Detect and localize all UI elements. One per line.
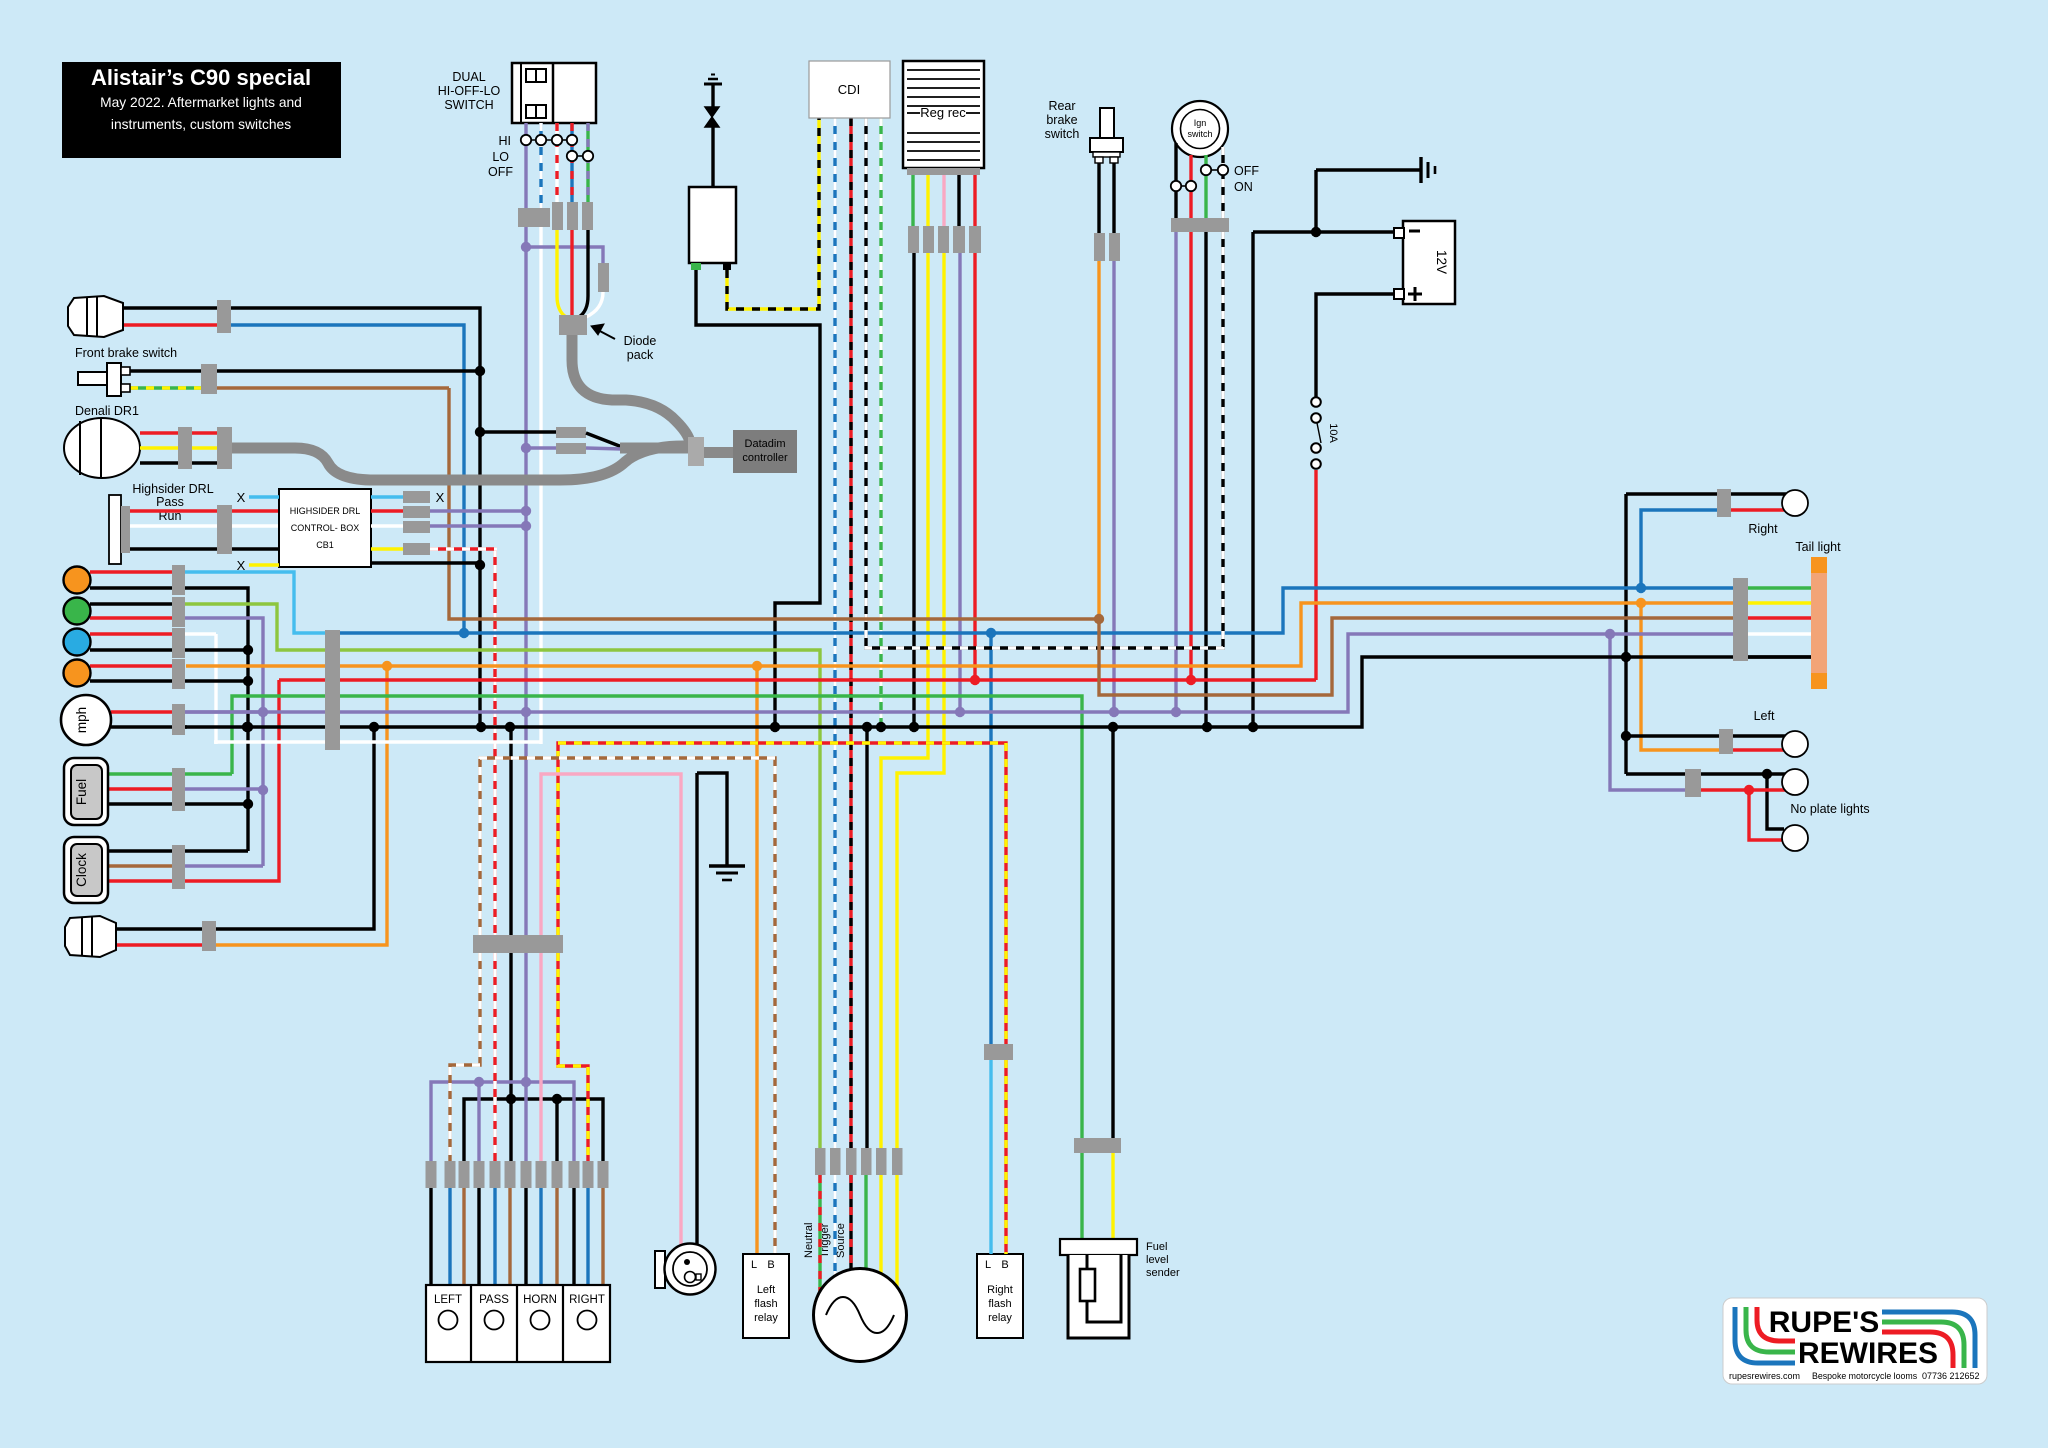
wire light-green rail xyxy=(185,604,820,1148)
connector ind1 xyxy=(172,565,185,595)
wire ind1 black branch xyxy=(90,588,248,851)
gauge mph xyxy=(61,695,111,745)
wire lamp orange xyxy=(216,666,387,945)
svg-text:rupesrewires.com: rupesrewires.com xyxy=(1729,1371,1800,1381)
connector regrec 2 xyxy=(923,226,934,253)
wire ign black xyxy=(1174,143,1177,218)
ground horn xyxy=(709,864,745,867)
connector fuel xyxy=(172,768,185,811)
box highsider control box CB1 xyxy=(279,489,371,567)
svg-text:HI: HI xyxy=(499,134,512,148)
wire CDI blue-white xyxy=(833,118,836,1148)
connector ind4 xyxy=(172,659,185,689)
wire highsider black xyxy=(130,547,279,550)
tail light bar xyxy=(1811,557,1827,573)
svg-text:RUPE'S: RUPE'S xyxy=(1769,1306,1880,1339)
wire no-plate black xyxy=(1626,772,1685,775)
rear brake switch body xyxy=(1100,108,1114,138)
wire fuel black xyxy=(108,802,248,805)
connector bundle wide xyxy=(473,935,563,953)
logo swoosh left green xyxy=(1746,1307,1795,1352)
wire dual blue-white top xyxy=(539,123,542,209)
wire highsider out red-purple xyxy=(371,509,403,512)
wire bundle black tee xyxy=(464,1099,603,1161)
wire bundle purple tee xyxy=(431,1082,574,1161)
wire battery negative xyxy=(1314,170,1317,232)
wire orange rail xyxy=(186,603,1733,666)
svg-text:CB1: CB1 xyxy=(316,540,334,550)
logo swoosh right blue xyxy=(1882,1312,1975,1368)
svg-text:HIGHSIDER DRL: HIGHSIDER DRL xyxy=(290,506,361,516)
svg-text:Alistair’s C90 special: Alistair’s C90 special xyxy=(91,65,311,90)
wire lightblue into right relay xyxy=(989,1060,992,1254)
wire CDI green-white xyxy=(879,118,882,727)
wire fuel green xyxy=(108,772,232,775)
indicator lamp orange 1 xyxy=(64,567,91,594)
wire alt yellow 1 xyxy=(879,1175,882,1275)
wire horn black xyxy=(695,773,698,1245)
wire regrec yellow out 1 xyxy=(881,253,928,1148)
wire red rail xyxy=(279,678,1316,681)
wire ind2 red xyxy=(90,616,172,619)
svg-text:PASS: PASS xyxy=(479,1294,509,1306)
spark gap xyxy=(705,107,719,117)
svg-text:May 2022. Aftermarket lights a: May 2022. Aftermarket lights and xyxy=(100,95,302,110)
svg-text:flash: flash xyxy=(754,1298,777,1310)
connector dual small 3 xyxy=(582,202,593,230)
switch pod wires xyxy=(429,1188,432,1285)
ground battery symbol xyxy=(1316,168,1421,171)
svg-text:Front brake switch: Front brake switch xyxy=(75,346,177,360)
connector headlight xyxy=(217,300,231,333)
horn xyxy=(655,1251,665,1288)
wire regrec red out xyxy=(973,253,976,680)
node junctions on rails xyxy=(459,628,469,638)
wire regrec black out xyxy=(912,253,915,727)
wire left ind feed black xyxy=(1733,734,1786,737)
connector no-plate xyxy=(1685,769,1701,797)
connector regrec 1 xyxy=(908,226,919,253)
wire red to diode pack xyxy=(570,230,573,317)
wire rear brake purple out xyxy=(1112,261,1115,712)
wire highsider red xyxy=(130,509,279,512)
wire denali yellow xyxy=(140,446,217,449)
svg-text:L: L xyxy=(751,1259,757,1271)
connector rear brake 2 xyxy=(1109,233,1120,261)
wire dual white lo-beam long xyxy=(539,226,542,744)
svg-text:Highsider DRL: Highsider DRL xyxy=(132,482,213,496)
wire dual white-red top xyxy=(555,123,558,202)
connector main loom left xyxy=(325,630,340,750)
fuel level sender xyxy=(1060,1239,1137,1255)
connector highsider out1 xyxy=(403,491,430,503)
logo rupes rewires xyxy=(1723,1298,1987,1384)
svg-text:X: X xyxy=(237,558,246,573)
node battery negative junction xyxy=(1311,227,1321,237)
wire fuel red xyxy=(108,787,172,790)
wire ind3 black xyxy=(90,648,248,651)
highsider plug xyxy=(109,495,121,564)
wire black to diode pack xyxy=(579,230,588,317)
wire yellow fuel sender xyxy=(1111,1153,1114,1240)
wire front-brake brown xyxy=(217,386,449,389)
svg-text:flash: flash xyxy=(988,1298,1011,1310)
wire tail green xyxy=(1748,586,1811,589)
wire no-plate feed red xyxy=(1701,788,1786,791)
wire X blue xyxy=(249,495,279,498)
connector clock xyxy=(172,845,185,889)
svg-text:Source: Source xyxy=(835,1223,847,1258)
wire bundle purple xyxy=(524,953,527,1161)
wire bundle black upper xyxy=(509,727,512,935)
svg-text:brake: brake xyxy=(1046,113,1077,127)
fuse 10A xyxy=(1311,397,1321,407)
svg-text:10A: 10A xyxy=(1327,423,1339,443)
connector regrec 3 xyxy=(938,226,949,253)
pilot lamp bottom-left xyxy=(65,916,116,957)
connector flash feeds xyxy=(984,1044,1013,1060)
wire dual purple branch to diode connector xyxy=(526,247,603,263)
wire left indicator black xyxy=(1626,734,1719,737)
relay left flash xyxy=(743,1254,789,1338)
wire ign green xyxy=(1204,155,1207,218)
wire CDI red-black xyxy=(849,118,852,1148)
arrow diode pack xyxy=(596,329,615,339)
wire ind3 white xyxy=(185,632,216,635)
connector ind2 xyxy=(172,597,185,627)
connector highsider out4 xyxy=(403,543,430,555)
svg-text:RIGHT: RIGHT xyxy=(569,1294,605,1306)
no plate light upper xyxy=(1782,769,1808,795)
svg-text:pack: pack xyxy=(627,348,654,362)
svg-text:B: B xyxy=(1001,1259,1008,1271)
wire alt black-red xyxy=(849,1175,852,1271)
wire datadim black xyxy=(480,430,556,433)
svg-text:07736 212652: 07736 212652 xyxy=(1922,1371,1980,1381)
wire ign red xyxy=(1189,155,1192,218)
wire highsider box black out xyxy=(371,561,480,564)
svg-text:L: L xyxy=(985,1259,991,1271)
battery 12V xyxy=(1403,221,1455,304)
svg-text:Reg rec: Reg rec xyxy=(920,105,966,120)
wire purple rail xyxy=(185,634,1733,712)
svg-text:DUAL: DUAL xyxy=(452,70,485,84)
wire black-dashed ign feed xyxy=(866,118,1223,648)
svg-text:OFF: OFF xyxy=(1234,164,1259,178)
logo swoosh right red xyxy=(1882,1332,1953,1368)
wire coil black to rail xyxy=(696,270,820,727)
connector regrec 5 xyxy=(969,226,981,253)
wire mph purple xyxy=(185,710,263,713)
wire blue rail xyxy=(340,588,1733,633)
svg-text:HI-OFF-LO: HI-OFF-LO xyxy=(438,84,501,98)
wire front-brake black xyxy=(130,369,480,372)
wire clock purple xyxy=(185,864,263,867)
wire bundle pink xyxy=(539,953,542,1161)
svg-text:Right: Right xyxy=(987,1284,1013,1296)
wire front-brake green-yellow xyxy=(130,386,201,389)
wire right indicator feed red xyxy=(1731,508,1786,511)
wire green rail xyxy=(232,696,1082,1240)
wire denali black xyxy=(140,461,217,464)
svg-text:mph: mph xyxy=(74,707,89,733)
wire white rail horizontal xyxy=(214,740,541,743)
wire light-blue indicator feed xyxy=(185,572,326,633)
wire white from diode connector xyxy=(586,292,603,317)
connector highsider out2 xyxy=(403,506,430,518)
logo swoosh left red xyxy=(1757,1307,1795,1341)
wire X yellow xyxy=(249,563,279,566)
contacts ign OFF row xyxy=(1211,169,1218,171)
svg-text:instruments, custom switches: instruments, custom switches xyxy=(111,117,291,132)
wire alt yellow 2 xyxy=(895,1175,898,1289)
wire datadim purple xyxy=(526,446,556,449)
connector datadim merge xyxy=(688,437,704,466)
wire brown-white dashed rail xyxy=(480,758,775,1254)
dual switch body xyxy=(512,63,596,123)
wire regrec purple out xyxy=(958,253,961,712)
connector ind3 xyxy=(172,628,185,658)
box datadim controller xyxy=(733,430,797,473)
wire alt blue-white xyxy=(833,1175,836,1277)
connector bundle row xyxy=(426,1161,437,1188)
svg-text:relay: relay xyxy=(988,1312,1012,1324)
fuel sender connector xyxy=(1074,1138,1121,1153)
relay right flash xyxy=(977,1254,1023,1338)
connector denali 1 xyxy=(178,427,192,469)
wire dual green-purple top xyxy=(586,123,589,202)
wire ign red out xyxy=(1189,232,1192,680)
wire tail black xyxy=(1748,655,1811,658)
wire denali red xyxy=(140,431,217,434)
wire right indicator black xyxy=(1626,492,1717,495)
svg-text:B: B xyxy=(767,1259,774,1271)
diode pack xyxy=(559,315,587,335)
wire right indicator blue riser xyxy=(1641,510,1717,588)
wire dual blue-red top xyxy=(570,123,573,202)
svg-text:Fuel: Fuel xyxy=(74,779,89,805)
wire ign black out xyxy=(1204,232,1207,727)
connector highsider left xyxy=(217,505,232,554)
connector alternator row xyxy=(815,1148,826,1175)
wire highsider dashed long xyxy=(493,549,496,935)
wire alt green xyxy=(864,1175,867,1269)
wire no-plate feed black xyxy=(1701,772,1786,775)
wire horn ground branch xyxy=(697,773,727,865)
wire coil yellow-black to CDI xyxy=(727,118,819,309)
wire fuse to red rail xyxy=(1314,470,1317,680)
wire ind4 black xyxy=(90,679,248,682)
cable denali loom xyxy=(232,446,688,480)
connector right indicator xyxy=(1717,489,1731,517)
front brake switch body xyxy=(78,372,107,385)
wire red-yellow into right relay xyxy=(1004,1060,1007,1254)
svg-text:switch: switch xyxy=(1045,127,1080,141)
wire regrec yellow out 2 xyxy=(897,253,944,1148)
wire regrec pink xyxy=(942,175,945,226)
connector lamp xyxy=(202,921,216,951)
wire headlight red xyxy=(123,323,217,326)
svg-text:Left: Left xyxy=(1754,709,1775,723)
svg-text:level: level xyxy=(1146,1254,1169,1266)
wire rear brake orange out xyxy=(1097,261,1100,619)
contacts HI row xyxy=(531,139,551,141)
wire rear brake black 2 xyxy=(1112,163,1115,233)
wire clock brown xyxy=(108,864,172,867)
svg-text:controller: controller xyxy=(742,452,788,464)
gauge fuel xyxy=(64,758,108,825)
svg-text:Datadim: Datadim xyxy=(745,438,786,450)
logo swoosh left blue xyxy=(1735,1307,1795,1363)
connector regrec 4 xyxy=(953,226,965,253)
connector dual small 1 xyxy=(552,202,563,230)
wire lamp red xyxy=(116,943,202,946)
wire ind1 red xyxy=(90,570,172,573)
ignition coil xyxy=(689,187,736,263)
indicator right xyxy=(1782,490,1808,516)
svg-text:ON: ON xyxy=(1234,180,1253,194)
svg-text:Tail light: Tail light xyxy=(1795,540,1841,554)
wire bundle black xyxy=(509,953,512,1161)
cable diode loom xyxy=(572,335,690,442)
connector tail light xyxy=(1733,578,1748,661)
box reg rec xyxy=(903,61,984,168)
wire ign dashed stub xyxy=(1221,147,1224,218)
connector rear brake 1 xyxy=(1094,233,1105,261)
svg-text:Diode: Diode xyxy=(624,334,657,348)
wire regrec yellow 1 xyxy=(926,175,929,226)
wire dual purple long xyxy=(524,247,527,935)
wire tail loom black vertical xyxy=(1624,494,1627,774)
wire mph red xyxy=(111,710,172,713)
wire clock black xyxy=(108,849,248,852)
svg-text:No plate lights: No plate lights xyxy=(1790,802,1869,816)
wire left ind feed red xyxy=(1733,748,1786,751)
wire right indicator feed black xyxy=(1731,492,1786,495)
wire pink rail xyxy=(541,774,681,1246)
wire ind2 black xyxy=(90,602,172,605)
box CDI xyxy=(809,61,890,118)
wire highsider white xyxy=(130,524,279,527)
indicator lamp blue xyxy=(64,629,91,656)
wire headlight blue xyxy=(231,325,464,633)
svg-text:switch: switch xyxy=(1187,129,1212,139)
wire regrec red xyxy=(973,175,976,226)
wire black rail xyxy=(185,657,1811,727)
svg-text:Fuel: Fuel xyxy=(1146,1241,1167,1253)
wire headlight black xyxy=(123,308,480,727)
wire ind2 purple branch xyxy=(185,618,263,866)
wire darkblue flash feed xyxy=(989,633,992,1044)
connector mph xyxy=(172,704,185,735)
wire fuel purple xyxy=(185,787,263,790)
wire ign purple out xyxy=(1174,232,1177,712)
connector diode purple xyxy=(598,263,609,292)
wire tail red xyxy=(1748,616,1811,619)
wire tail yellow xyxy=(1748,601,1811,604)
wire yellow to diode pack xyxy=(557,230,566,317)
wire alt green-red xyxy=(818,1175,821,1292)
wire bundle red-yellow jog xyxy=(558,953,588,1161)
wire bundle brown-white jog xyxy=(450,953,480,1161)
wire plug lead xyxy=(711,127,714,188)
svg-text:Denali DR1: Denali DR1 xyxy=(75,404,139,418)
svg-text:X: X xyxy=(436,490,445,505)
svg-text:SWITCH: SWITCH xyxy=(444,98,493,112)
wire left indicator orange drop xyxy=(1641,603,1719,750)
svg-text:Pass: Pass xyxy=(156,495,184,509)
svg-text:sender: sender xyxy=(1146,1267,1180,1279)
wire clock red xyxy=(108,879,172,882)
svg-text:12V: 12V xyxy=(1434,250,1449,274)
wire black alternator feed xyxy=(865,727,868,1148)
wire no-plate purple drop xyxy=(1610,634,1685,790)
alternator xyxy=(814,1269,907,1362)
connector dual small 2 xyxy=(567,202,578,230)
svg-text:Right: Right xyxy=(1748,522,1778,536)
wire bundle red-white xyxy=(493,953,496,1161)
ign switch xyxy=(1172,101,1228,157)
svg-text:LEFT: LEFT xyxy=(434,1294,462,1306)
wire tail white xyxy=(1748,632,1811,635)
Denali DR1 lamp xyxy=(64,418,140,478)
wire lamp black xyxy=(116,727,374,929)
indicator lamp green xyxy=(64,598,91,625)
wire rear brake black 1 xyxy=(1097,163,1100,233)
svg-text:Rear: Rear xyxy=(1048,99,1075,113)
no plate light lower xyxy=(1782,825,1808,851)
wire clock red riser xyxy=(185,680,279,881)
wire white vertical xyxy=(214,634,217,744)
title box xyxy=(62,62,341,158)
connector denali 2 xyxy=(217,427,232,469)
wire battery positive xyxy=(1316,294,1394,397)
headlight connector top-left xyxy=(68,296,123,337)
wire highsider out white-purple xyxy=(371,524,403,527)
wire mph black xyxy=(111,725,187,728)
contacts LO row xyxy=(577,155,584,157)
svg-text:Clock: Clock xyxy=(74,853,89,887)
logo swoosh right green xyxy=(1882,1322,1964,1368)
wire regrec black xyxy=(957,175,960,226)
svg-text:Ign: Ign xyxy=(1194,118,1207,128)
svg-text:REWIRES: REWIRES xyxy=(1798,1337,1938,1370)
svg-text:Neutral: Neutral xyxy=(803,1223,815,1258)
svg-text:HORN: HORN xyxy=(523,1294,557,1306)
svg-text:OFF: OFF xyxy=(488,165,513,179)
indicator lamp orange 2 xyxy=(64,660,91,687)
svg-text:CONTROL- BOX: CONTROL- BOX xyxy=(291,523,360,533)
connector left indicator xyxy=(1719,729,1733,754)
connector front brake xyxy=(201,364,217,394)
svg-text:relay: relay xyxy=(754,1312,778,1324)
contacts ign ON row xyxy=(1181,185,1186,187)
wire dual purple top xyxy=(524,123,527,250)
connector ign switch xyxy=(1171,218,1229,232)
ground spark plug xyxy=(704,83,722,86)
svg-text:LO: LO xyxy=(492,150,509,164)
wire regrec green xyxy=(911,175,914,226)
wire highsider out blue xyxy=(371,495,403,498)
wire battery neg to rail xyxy=(1251,232,1254,727)
svg-text:CDI: CDI xyxy=(838,82,860,97)
wire black fuel sender feed xyxy=(1111,727,1114,1138)
wire red-yellow dashed rail xyxy=(558,743,1006,1046)
wire orange into left relay xyxy=(755,666,758,1254)
gauge clock xyxy=(64,837,108,903)
wire highsider out yellow-dash xyxy=(371,547,403,550)
connector highsider out3 xyxy=(403,521,430,533)
